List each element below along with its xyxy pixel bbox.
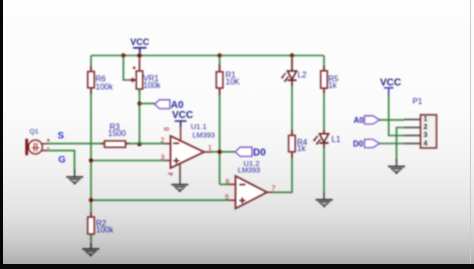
node junction VR1/A0 bbox=[137, 101, 141, 105]
svg-text:G: G bbox=[58, 154, 65, 165]
power VCC right bbox=[380, 77, 401, 96]
resistor R6 bbox=[88, 66, 114, 94]
op-amp U1.2 bbox=[225, 159, 276, 209]
LED L1 bbox=[313, 130, 341, 148]
potentiometer VR1 bbox=[130, 58, 162, 94]
svg-text:D0: D0 bbox=[353, 139, 364, 148]
wire U1.1 output row bbox=[212, 151, 237, 153]
svg-text:6: 6 bbox=[226, 179, 230, 186]
wire VCC rail bbox=[91, 55, 324, 57]
ground L1 bbox=[316, 193, 333, 207]
wire G to ground bbox=[47, 151, 75, 171]
svg-text:D0: D0 bbox=[253, 148, 266, 159]
node junction rail/L2 bbox=[290, 53, 294, 57]
svg-text:LM393: LM393 bbox=[193, 130, 215, 139]
wire wiper drop bbox=[123, 56, 130, 81]
svg-text:2: 2 bbox=[160, 138, 164, 145]
LED L2 bbox=[281, 58, 307, 86]
wire U1.2 output to R4 column bbox=[273, 152, 293, 193]
svg-text:100k: 100k bbox=[143, 81, 161, 90]
wire pin6 row bbox=[220, 183, 229, 185]
svg-text:VCC: VCC bbox=[172, 110, 193, 121]
svg-text:8: 8 bbox=[164, 127, 171, 131]
svg-text:1: 1 bbox=[208, 145, 212, 152]
svg-text:5: 5 bbox=[225, 195, 229, 202]
wire VCC to pin3 P1 bbox=[389, 95, 404, 136]
svg-text:4: 4 bbox=[424, 140, 428, 147]
svg-text:1: 1 bbox=[424, 116, 428, 123]
wire D0 to pin4 P1 bbox=[380, 143, 405, 145]
svg-text:3: 3 bbox=[424, 132, 428, 139]
wire pin3 row bbox=[91, 160, 165, 162]
resistor R1 bbox=[216, 64, 240, 95]
svg-text:10K: 10K bbox=[226, 78, 241, 87]
svg-text:1500: 1500 bbox=[108, 129, 126, 138]
svg-text:100k: 100k bbox=[96, 225, 114, 234]
wire S row bbox=[47, 143, 165, 145]
power VCC top bbox=[130, 37, 150, 53]
op-amp U1.1 pin4 ground bbox=[168, 165, 180, 185]
wire R5/L1 column bbox=[323, 56, 325, 193]
power VCC op-amp pin8 bbox=[164, 110, 193, 140]
svg-text:VCC: VCC bbox=[380, 77, 401, 88]
svg-text:1k: 1k bbox=[297, 144, 306, 153]
wire L2/R4 column top bbox=[291, 56, 293, 136]
svg-text:L1: L1 bbox=[332, 135, 341, 144]
node junction rail/R1 bbox=[217, 53, 221, 57]
svg-text:2: 2 bbox=[424, 124, 428, 131]
node junction rail/wiper bbox=[121, 53, 125, 57]
node junction R6col/pin3 bbox=[89, 158, 93, 162]
connector P1 bbox=[404, 97, 437, 148]
ground op-amp bbox=[171, 185, 188, 192]
flag D0 left bbox=[235, 147, 266, 158]
flag A0 left bbox=[155, 100, 184, 111]
flag D0 right bbox=[353, 139, 380, 148]
svg-text:LM393: LM393 bbox=[238, 166, 260, 175]
svg-text:A0: A0 bbox=[354, 116, 365, 125]
wire A0 tap bbox=[140, 103, 156, 105]
svg-text:A0: A0 bbox=[171, 100, 184, 111]
svg-text:4: 4 bbox=[168, 172, 175, 176]
svg-text:Q1: Q1 bbox=[30, 128, 39, 135]
op-amp U1.1 bbox=[160, 122, 214, 168]
node junction R6col/pin5 bbox=[89, 198, 93, 202]
resistor R4 bbox=[289, 130, 308, 158]
svg-text:1k: 1k bbox=[328, 81, 337, 90]
wire VR1 column down bbox=[139, 89, 141, 144]
svg-text:VCC: VCC bbox=[130, 37, 150, 47]
svg-text:L2: L2 bbox=[298, 71, 307, 80]
resistor R5 bbox=[321, 66, 339, 93]
microphone Q1 bbox=[25, 128, 49, 155]
wire pin5 row bbox=[91, 199, 229, 201]
ground mic bbox=[66, 170, 83, 184]
ground R2 bbox=[82, 243, 99, 256]
flag A0 right bbox=[354, 116, 380, 125]
wire A0 to pin1 P1 bbox=[380, 119, 405, 121]
svg-text:S: S bbox=[58, 130, 64, 141]
ground P1 bbox=[388, 159, 405, 173]
node junction VR1/S-row bbox=[137, 142, 141, 146]
wire R2 to ground bbox=[90, 235, 92, 249]
svg-text:100k: 100k bbox=[96, 82, 114, 91]
wire pin2 P1 to ground bbox=[397, 128, 405, 161]
wire R6 column bbox=[90, 56, 92, 218]
wire R1 column bbox=[219, 56, 221, 185]
node junction output/R1 bbox=[217, 150, 221, 154]
node junction rail/VCC bbox=[137, 53, 142, 58]
svg-text:P1: P1 bbox=[413, 97, 423, 106]
resistor R2 bbox=[88, 212, 115, 240]
resistor R3 bbox=[101, 123, 129, 148]
svg-text:3: 3 bbox=[161, 155, 165, 162]
